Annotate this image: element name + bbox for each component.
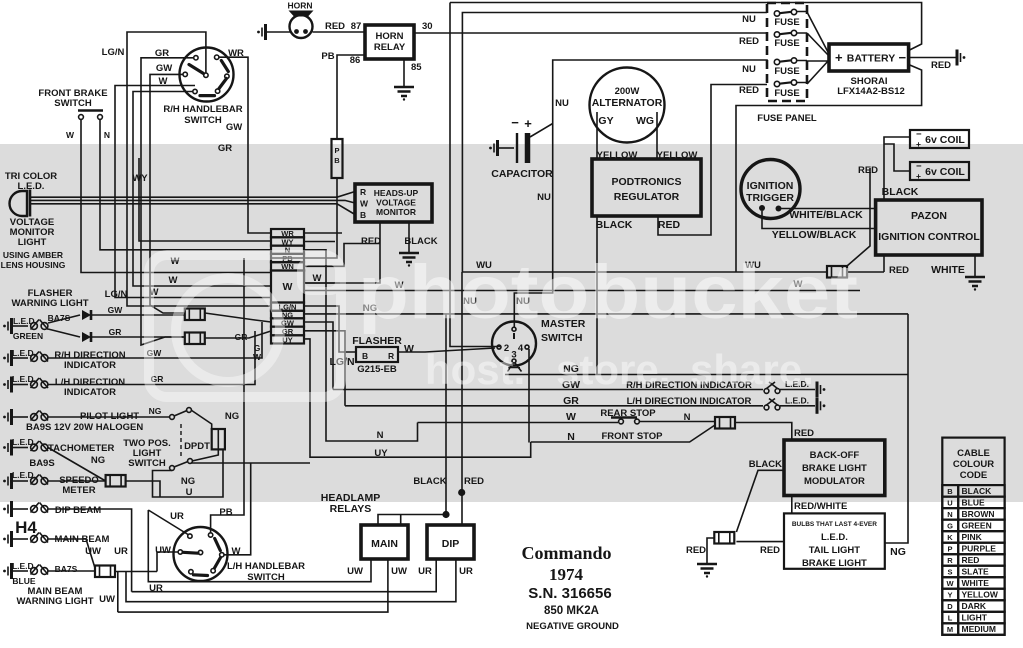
diode D1 (GW feed)	[48, 315, 80, 323]
bus line4	[118, 559, 388, 612]
svg-text:+: +	[916, 171, 921, 181]
red feed from NU/line2 vertical down to DIP	[461, 272, 463, 525]
svg-text:SWITCH: SWITCH	[128, 458, 166, 469]
wire GW from switch	[150, 74, 185, 313]
wire relay 30 to fuse row2	[414, 32, 767, 34]
svg-text:RED: RED	[658, 219, 681, 231]
svg-text:NU: NU	[537, 192, 551, 203]
svg-text:L/H DIRECTION INDICATOR: L/H DIRECTION INDICATOR	[627, 396, 752, 407]
6v coil 2	[910, 162, 969, 180]
svg-text:BLACK: BLACK	[962, 486, 993, 496]
heads-up voltage monitor U4	[355, 184, 432, 222]
svg-text:UW: UW	[391, 566, 407, 577]
svg-text:RED: RED	[739, 36, 759, 47]
svg-text:BA7S: BA7S	[55, 564, 78, 574]
svg-text:L: L	[948, 614, 953, 623]
NG wire tail light right	[885, 314, 908, 543]
GW bus to R/H indicator	[333, 389, 763, 391]
svg-text:6v COIL: 6v COIL	[925, 134, 965, 146]
svg-text:NU: NU	[742, 64, 756, 75]
svg-text:GW: GW	[156, 63, 172, 74]
svg-text:PB: PB	[219, 507, 232, 518]
svg-text:WHITE: WHITE	[962, 578, 990, 588]
WY stub	[304, 241, 335, 243]
svg-text:BLACK: BLACK	[596, 219, 633, 231]
svg-text:RED: RED	[794, 428, 814, 439]
line2 NU to fuse row1	[462, 13, 767, 273]
svg-text:GR: GR	[235, 332, 248, 342]
svg-text:WHITE: WHITE	[931, 264, 965, 276]
svg-text:FRONT STOP: FRONT STOP	[601, 431, 663, 442]
svg-text:UW: UW	[85, 546, 101, 557]
svg-text:FUSE: FUSE	[774, 38, 799, 49]
svg-text:GREEN: GREEN	[13, 331, 43, 341]
svg-text:W: W	[169, 275, 178, 286]
svg-text:UR: UR	[418, 566, 432, 577]
R/H direction indicator lamp row	[3, 350, 11, 366]
svg-text:W: W	[946, 579, 954, 588]
svg-text:YELLOW/BLACK: YELLOW/BLACK	[772, 229, 857, 241]
svg-text:FUSE PANEL: FUSE PANEL	[757, 113, 817, 124]
stop inline connector	[715, 417, 735, 429]
W wire 2 long	[304, 290, 860, 292]
svg-text:DARK: DARK	[962, 601, 987, 611]
GR wire down	[304, 331, 345, 406]
svg-text:CABLE: CABLE	[957, 448, 990, 459]
junction dots	[458, 489, 465, 496]
svg-text:M: M	[947, 625, 953, 634]
regulator red wire to fuse row4	[658, 85, 767, 236]
wire LG/N: center pin up over to left and down to strip	[127, 32, 271, 306]
capacitor C1	[516, 133, 518, 163]
flasher W wire to master pin 2	[398, 348, 495, 352]
svg-text:NG: NG	[890, 546, 906, 558]
fuse F2	[774, 30, 796, 37]
svg-text:BLUE: BLUE	[12, 576, 35, 586]
svg-text:S: S	[947, 567, 952, 576]
GW wire down to indicator bus	[304, 322, 333, 390]
svg-text:WARNING LIGHT: WARNING LIGHT	[11, 298, 88, 309]
monitor black lead to ground	[408, 222, 410, 252]
svg-text:HORN: HORN	[287, 1, 312, 11]
svg-text:NG: NG	[225, 411, 239, 422]
svg-text:RED: RED	[325, 21, 345, 32]
svg-text:GR: GR	[109, 327, 122, 337]
black feed vertical	[445, 314, 447, 515]
svg-text:SLATE: SLATE	[962, 566, 990, 576]
svg-text:METER: METER	[62, 485, 95, 496]
alternator G1	[590, 68, 665, 143]
wire W from switch	[133, 92, 271, 287]
regulator black wire	[596, 216, 598, 375]
svg-text:CODE: CODE	[960, 470, 987, 481]
svg-text:Y: Y	[947, 591, 952, 600]
two position light switch pole 1	[170, 415, 175, 420]
speedo row	[3, 473, 11, 489]
dip beam row	[3, 501, 11, 517]
svg-text:R: R	[360, 187, 366, 197]
NG wire from pole2 to UY vertical	[191, 462, 310, 464]
gray band	[0, 144, 1023, 502]
svg-text:B: B	[334, 156, 340, 165]
svg-text:SWITCH: SWITCH	[54, 98, 92, 109]
svg-text:GR: GR	[218, 143, 232, 154]
svg-text:−: −	[511, 115, 519, 130]
svg-text:LG/N: LG/N	[102, 47, 125, 58]
white/black wire	[781, 208, 876, 210]
svg-text:HORN: HORN	[376, 31, 404, 42]
svg-text:host.: host.	[425, 346, 525, 393]
PB wire down to strip row	[271, 178, 337, 258]
svg-text:U: U	[186, 487, 193, 498]
svg-text:K: K	[947, 533, 953, 542]
wire WR from switch to strip	[219, 57, 271, 233]
svg-text:GR: GR	[563, 395, 579, 407]
red wire from coils area down to WU connector	[847, 168, 870, 266]
capacitor ground	[489, 140, 497, 156]
DPDT connector	[212, 429, 225, 449]
svg-text:IGNITION CONTROL: IGNITION CONTROL	[878, 231, 980, 243]
svg-text:CAPACITOR: CAPACITOR	[491, 168, 553, 180]
svg-text:DIP BEAM: DIP BEAM	[55, 505, 101, 516]
ignition trigger	[741, 160, 800, 219]
pazon red lead down	[883, 255, 885, 272]
horn	[289, 11, 314, 39]
svg-text:BA9S: BA9S	[29, 458, 54, 469]
svg-text:L.E.D.: L.E.D.	[13, 316, 37, 326]
svg-text:NG: NG	[91, 455, 105, 466]
svg-text:BRAKE LIGHT: BRAKE LIGHT	[802, 558, 867, 569]
svg-text:LIGHT: LIGHT	[18, 237, 47, 248]
svg-text:NU: NU	[555, 98, 569, 109]
alternator leads	[597, 112, 657, 159]
switch pole 2	[170, 466, 175, 471]
brake N wire	[100, 120, 271, 250]
svg-text:BATTERY: BATTERY	[847, 53, 895, 65]
flasher warning lamp L1	[3, 318, 11, 334]
svg-text:N: N	[684, 412, 691, 423]
svg-text:WR: WR	[228, 48, 244, 59]
bus line3	[126, 559, 456, 602]
svg-text:S.N. 316656: S.N. 316656	[528, 585, 611, 602]
svg-text:R/H HANDLEBAR: R/H HANDLEBAR	[163, 104, 242, 115]
svg-text:UY: UY	[374, 448, 388, 459]
svg-text:BROWN: BROWN	[962, 509, 995, 519]
GR bus to L/H indicator	[345, 405, 763, 407]
svg-text:IGNITION: IGNITION	[747, 180, 794, 192]
coil2 link wire	[884, 144, 910, 171]
svg-text:P: P	[334, 146, 339, 155]
fuse outputs converge to battery	[797, 12, 808, 83]
6v coil 1	[910, 130, 969, 148]
svg-text:N: N	[104, 130, 110, 140]
horn relay U1	[365, 25, 414, 59]
svg-text:BLACK: BLACK	[749, 459, 782, 470]
wire ground to horn	[266, 31, 290, 33]
WY vertical to strip	[139, 158, 271, 241]
svg-text:NG: NG	[181, 476, 195, 487]
UW wire from switch left contact	[157, 552, 178, 572]
svg-text:B: B	[362, 351, 368, 361]
svg-text:RED: RED	[686, 545, 706, 556]
svg-text:photobucket: photobucket	[358, 250, 858, 335]
red/white lead	[791, 496, 793, 514]
svg-text:REGULATOR: REGULATOR	[614, 191, 680, 203]
ground for horn	[257, 24, 265, 40]
svg-text:L.E.D.: L.E.D.	[12, 561, 36, 571]
svg-text:W: W	[404, 343, 414, 355]
battery B1	[829, 44, 909, 71]
svg-text:YELLOW: YELLOW	[962, 590, 999, 600]
svg-text:GREEN: GREEN	[962, 520, 992, 530]
master pin3 legs to NG bus	[508, 363, 522, 372]
UY wire down to front stop bus	[304, 339, 531, 457]
MAIN relay	[361, 525, 408, 559]
DIP relay	[427, 525, 474, 559]
svg-text:GY: GY	[598, 115, 613, 127]
W wire from switch right contact	[224, 463, 251, 555]
svg-text:COLOUR: COLOUR	[953, 459, 994, 470]
svg-text:L.E.D.: L.E.D.	[12, 437, 36, 447]
svg-text:UR: UR	[114, 546, 128, 557]
cable colour code rows	[942, 485, 1004, 635]
wire relay 85 to ground	[403, 59, 405, 86]
svg-text:L.E.D.: L.E.D.	[821, 532, 848, 543]
svg-text:H4: H4	[15, 518, 37, 537]
svg-text:TACHOMETER: TACHOMETER	[48, 443, 114, 454]
master switch	[492, 322, 536, 366]
svg-text:DIP: DIP	[442, 538, 460, 550]
monitor red lead down/left	[304, 222, 380, 283]
svg-text:FUSE: FUSE	[774, 17, 799, 28]
svg-text:85: 85	[411, 62, 422, 73]
svg-text:LG/N: LG/N	[105, 289, 128, 300]
svg-text:PURPLE: PURPLE	[962, 543, 997, 553]
svg-text:store.: store.	[556, 346, 670, 393]
flat ground below relay	[394, 87, 414, 101]
capacitor NU wire up to fuse row3	[530, 60, 767, 137]
svg-text:RED: RED	[858, 165, 878, 176]
tachometer row	[3, 440, 11, 456]
yellow/black wire	[762, 211, 876, 229]
regulator U2	[592, 159, 701, 216]
svg-text:N: N	[377, 430, 384, 441]
battery bottom corner to fuse panel bottom line	[736, 65, 922, 273]
svg-text:W: W	[232, 546, 241, 557]
svg-text:BLACK: BLACK	[882, 186, 919, 198]
svg-text:R: R	[388, 351, 394, 361]
fuse F3	[774, 58, 796, 65]
WU line	[462, 271, 884, 273]
svg-text:L.E.D.: L.E.D.	[785, 396, 809, 406]
connector to ground	[707, 538, 714, 563]
inline connector GR	[185, 333, 205, 345]
svg-text:86: 86	[350, 55, 361, 66]
NG wire long right	[304, 313, 908, 315]
wire to modulator	[735, 423, 792, 441]
WR stub	[304, 232, 342, 234]
svg-text:USING AMBER: USING AMBER	[3, 250, 63, 260]
svg-text:BRAKE LIGHT: BRAKE LIGHT	[802, 463, 867, 474]
svg-text:L/H HANDLEBAR: L/H HANDLEBAR	[227, 561, 305, 572]
svg-text:P: P	[947, 544, 952, 553]
diode D2 (GR feed)	[48, 329, 80, 337]
svg-text:RED: RED	[889, 265, 909, 276]
svg-text:MEDIUM: MEDIUM	[962, 624, 996, 634]
svg-text:N: N	[947, 510, 952, 519]
svg-text:GR: GR	[155, 48, 169, 59]
ground right of battery	[957, 50, 965, 66]
wire W stub from bundle	[115, 86, 271, 298]
svg-text:BACK-OFF: BACK-OFF	[810, 450, 860, 461]
svg-text:FLASHER: FLASHER	[352, 335, 402, 347]
fuse panel dashed box	[767, 3, 807, 101]
svg-text:BULBS THAT LAST 4-EVER: BULBS THAT LAST 4-EVER	[792, 521, 877, 528]
svg-text:INDICATOR: INDICATOR	[64, 387, 116, 398]
svg-text:BLACK: BLACK	[404, 236, 437, 247]
svg-text:INDICATOR: INDICATOR	[64, 360, 116, 371]
svg-text:RED: RED	[361, 236, 381, 247]
svg-text:MAIN: MAIN	[371, 538, 398, 550]
svg-text:R: R	[947, 556, 953, 565]
svg-text:RED: RED	[760, 545, 780, 556]
pilot light row	[3, 409, 11, 425]
svg-text:G215-EB: G215-EB	[357, 364, 397, 375]
W wire 1	[304, 282, 340, 284]
PB wire to L/H switch	[211, 258, 244, 533]
svg-text:W: W	[313, 273, 322, 284]
svg-text:DPDT: DPDT	[184, 441, 210, 452]
svg-text:MONITOR: MONITOR	[376, 207, 416, 217]
svg-text:share.: share.	[690, 346, 814, 393]
svg-text:1974: 1974	[549, 565, 584, 584]
black wire modulator to connector	[736, 470, 784, 532]
coil1 black wire to pazon	[884, 137, 910, 200]
svg-text:RED: RED	[931, 60, 951, 71]
UR diagonal to line1	[148, 510, 188, 535]
svg-text:Commando: Commando	[521, 543, 611, 563]
LED three wires to monitor	[30, 192, 355, 198]
svg-text:RELAY: RELAY	[374, 42, 406, 53]
svg-text:UW: UW	[347, 566, 363, 577]
svg-text:L.E.D.: L.E.D.	[12, 470, 36, 480]
NU vertical A to master pin 2	[450, 3, 500, 347]
svg-text:L.E.D.: L.E.D.	[12, 374, 36, 384]
svg-text:ALTERNATOR: ALTERNATOR	[592, 97, 663, 109]
bus line1	[148, 510, 371, 582]
svg-text:RED/WHITE: RED/WHITE	[794, 501, 847, 512]
bus line2	[132, 559, 437, 592]
svg-text:UW: UW	[155, 545, 171, 556]
PB connector	[332, 139, 343, 178]
svg-text:LFX14A2-BS12: LFX14A2-BS12	[837, 86, 905, 97]
L/H direction indicator lamp row	[3, 377, 11, 393]
connector outputs to strip	[205, 313, 271, 322]
svg-text:30: 30	[422, 21, 433, 32]
svg-text:BLACK: BLACK	[413, 476, 446, 487]
L/H indicator switch + led + ground	[764, 399, 780, 410]
svg-text:RED: RED	[739, 85, 759, 96]
svg-text:FUSE: FUSE	[774, 88, 799, 99]
pazon ground lead	[974, 255, 976, 276]
main beam row	[3, 531, 11, 547]
svg-text:GW: GW	[226, 122, 242, 133]
svg-text:WY: WY	[132, 173, 148, 184]
tail light unit	[784, 513, 885, 568]
svg-text:UR: UR	[459, 566, 473, 577]
svg-text:U: U	[947, 498, 952, 507]
svg-text:850 MK2A: 850 MK2A	[544, 605, 599, 617]
inline connector GW	[185, 309, 205, 321]
LG/N wire to flasher	[304, 306, 356, 352]
svg-text:6v COIL: 6v COIL	[925, 166, 965, 178]
black branch to relay tops	[378, 515, 446, 526]
wire GR from switch	[141, 58, 194, 345]
svg-text:BLUE: BLUE	[962, 497, 985, 507]
wire relay 86 / PB	[337, 55, 365, 139]
svg-text:SWITCH: SWITCH	[247, 572, 285, 583]
inline connector UW	[95, 566, 115, 578]
svg-text:W: W	[66, 130, 75, 140]
svg-text:WARNING LIGHT: WARNING LIGHT	[16, 596, 93, 607]
svg-text:HEADS-UP: HEADS-UP	[374, 188, 419, 198]
svg-text:+: +	[916, 139, 921, 149]
battery minus to ground	[909, 57, 956, 59]
svg-text:WHITE/BLACK: WHITE/BLACK	[789, 209, 863, 221]
main beam warning row	[3, 563, 11, 579]
svg-text:200W: 200W	[615, 86, 640, 97]
tail inline connector	[714, 532, 734, 544]
svg-text:B: B	[947, 487, 953, 496]
N wire down to stop lamp bus	[304, 250, 418, 441]
pazon ignition control U3	[876, 200, 982, 255]
svg-text:G: G	[947, 521, 953, 530]
svg-text:TAIL LIGHT: TAIL LIGHT	[809, 545, 861, 556]
R/H handlebar switch Q1	[180, 48, 234, 102]
svg-text:GW: GW	[108, 305, 124, 315]
svg-text:NG: NG	[149, 406, 162, 416]
svg-text:SWITCH: SWITCH	[184, 115, 222, 126]
R/H indicator switch + led + ground	[764, 382, 780, 393]
svg-text:MODULATOR: MODULATOR	[804, 476, 865, 487]
capacitor NU wire down to master switch	[514, 124, 552, 328]
svg-text:L.E.D.: L.E.D.	[12, 348, 36, 358]
top line battery minus to master NU vertical	[450, 3, 922, 51]
svg-text:VOLTAGE: VOLTAGE	[376, 198, 416, 208]
svg-text:NEGATIVE GROUND: NEGATIVE GROUND	[526, 621, 619, 632]
dashed mechanical link	[180, 424, 182, 459]
svg-text:UR: UR	[170, 511, 184, 522]
svg-text:NU: NU	[742, 14, 756, 25]
svg-text:W: W	[360, 199, 369, 209]
WN stub	[304, 244, 380, 267]
svg-text:B: B	[360, 210, 366, 220]
red feed vertical from master pin4	[528, 349, 530, 443]
svg-text:−: −	[899, 50, 907, 65]
svg-text:FUSE: FUSE	[774, 66, 799, 77]
fuse F4	[774, 80, 796, 87]
svg-text:UW: UW	[99, 594, 115, 605]
svg-text:W: W	[283, 281, 293, 293]
svg-text:PINK: PINK	[962, 532, 983, 542]
wire horn to relay	[313, 31, 366, 33]
svg-text:WG: WG	[636, 115, 654, 127]
svg-text:+: +	[835, 50, 843, 65]
back-off brake light modulator	[784, 440, 885, 496]
svg-text:RED: RED	[464, 476, 484, 487]
svg-text:87: 87	[351, 21, 362, 32]
svg-text:TRIGGER: TRIGGER	[746, 192, 794, 204]
